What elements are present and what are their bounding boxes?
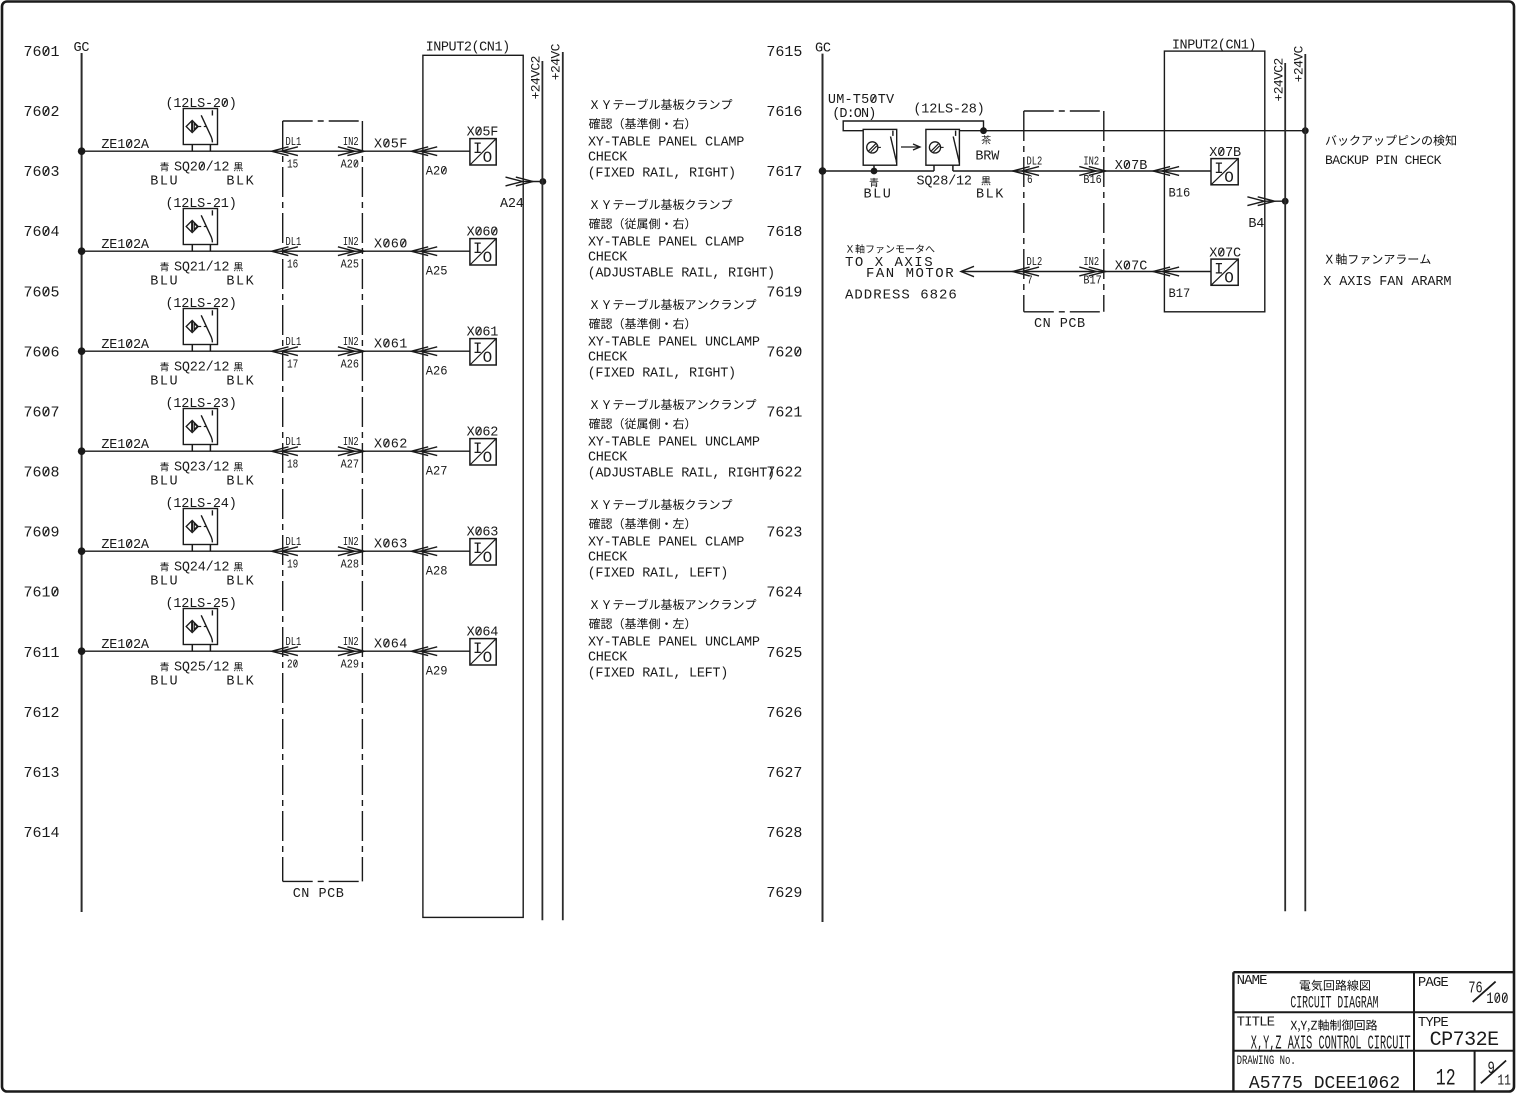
svg-text:(12LS-24): (12LS-24) bbox=[166, 497, 237, 512]
connector CN PCB pin DL1 16 / IN2 A25 bbox=[272, 236, 365, 272]
signal X060 wire to INPUT2 pin A25 bbox=[362, 238, 470, 279]
+24VC2 bus (right) bbox=[1271, 58, 1286, 911]
svg-text:X07C: X07C bbox=[1115, 260, 1148, 275]
description label row 6 bbox=[588, 599, 760, 682]
svg-text:A29: A29 bbox=[341, 659, 359, 672]
svg-text:I: I bbox=[473, 440, 482, 458]
signal X064 wire to INPUT2 pin A29 bbox=[362, 638, 470, 679]
svg-text:BLK: BLK bbox=[226, 675, 255, 690]
svg-text:XY-TABLE PANEL CLAMP: XY-TABLE PANEL CLAMP bbox=[588, 136, 744, 151]
svg-text:7609: 7609 bbox=[24, 525, 60, 542]
svg-text:CHECK: CHECK bbox=[588, 550, 628, 565]
svg-text:DL1: DL1 bbox=[286, 436, 302, 450]
signal X061 wire to INPUT2 pin A26 bbox=[362, 338, 470, 379]
svg-text:DL2: DL2 bbox=[1027, 256, 1043, 270]
svg-text:CHECK: CHECK bbox=[588, 650, 628, 665]
title block: TITLE X,Y,Z axis control circuit bbox=[1237, 1014, 1411, 1054]
svg-text:O: O bbox=[483, 249, 493, 267]
wire SQ24 to CN PCB pin DL1-19 bbox=[78, 547, 283, 555]
connector CN PCB pin DL2 6 / IN2 B16 bbox=[1013, 155, 1106, 187]
wire SQ23 to CN PCB pin DL1-18 bbox=[78, 447, 283, 455]
svg-text:(D:ON): (D:ON) bbox=[832, 107, 875, 122]
limit switch SQ22 (12LS-22) bbox=[101, 297, 255, 390]
svg-text:O: O bbox=[483, 349, 493, 367]
svg-text:INPUT2(CN1): INPUT2(CN1) bbox=[426, 40, 510, 55]
svg-text:BLU: BLU bbox=[150, 475, 179, 490]
svg-text:DL1: DL1 bbox=[286, 636, 302, 650]
svg-text:X063: X063 bbox=[374, 538, 408, 553]
wire SQ25 to CN PCB pin DL1-20 bbox=[78, 647, 283, 655]
wire SQ21 to CN PCB pin DL1-16 bbox=[78, 247, 283, 255]
connector CN PCB pin DL1 15 / IN2 A20 bbox=[272, 136, 365, 172]
svg-text:7617: 7617 bbox=[766, 164, 802, 181]
svg-text:18: 18 bbox=[287, 459, 298, 472]
svg-text:A29: A29 bbox=[426, 664, 448, 678]
svg-text:UM-T50TV: UM-T50TV bbox=[828, 93, 895, 108]
svg-text:O: O bbox=[483, 449, 493, 467]
svg-text:7607: 7607 bbox=[24, 404, 60, 421]
wire to X axis fan motor (ADDRESS 6826) bbox=[845, 244, 1024, 303]
svg-text:A24: A24 bbox=[500, 197, 524, 212]
title block: 9/11 bbox=[1481, 1058, 1511, 1089]
svg-text:CHECK: CHECK bbox=[588, 150, 628, 165]
title block: PAGE 76/100 bbox=[1418, 975, 1509, 1009]
svg-text:B17: B17 bbox=[1169, 286, 1191, 300]
svg-text:A28: A28 bbox=[341, 559, 359, 572]
GC bus (left) bbox=[74, 41, 90, 912]
svg-text:X062: X062 bbox=[374, 438, 408, 453]
svg-text:CHECK: CHECK bbox=[588, 350, 628, 365]
I/O point X061 bbox=[467, 326, 499, 367]
svg-text:SQ24/12: SQ24/12 bbox=[174, 561, 229, 576]
svg-text:A27: A27 bbox=[341, 459, 359, 472]
svg-text:CHECK: CHECK bbox=[588, 450, 628, 465]
svg-text:BRW: BRW bbox=[975, 150, 1000, 165]
svg-text:O: O bbox=[1224, 269, 1234, 287]
svg-text:7602: 7602 bbox=[24, 104, 60, 121]
svg-text:7627: 7627 bbox=[766, 765, 802, 782]
limit switch SQ23 (12LS-23) bbox=[101, 397, 255, 490]
svg-text:I: I bbox=[473, 540, 482, 558]
svg-text:7628: 7628 bbox=[766, 825, 802, 842]
svg-text:A26: A26 bbox=[341, 359, 359, 372]
proximity switch SQ28/12 UM-T50TV (12LS-28) bbox=[828, 93, 1005, 203]
svg-text:(12LS-21): (12LS-21) bbox=[166, 197, 237, 212]
svg-text:7625: 7625 bbox=[766, 645, 802, 662]
svg-text:(12LS-28): (12LS-28) bbox=[913, 103, 984, 118]
svg-text:BLK: BLK bbox=[226, 475, 255, 490]
+24VC2 bus (left) bbox=[529, 56, 544, 920]
svg-text:+24VC2: +24VC2 bbox=[529, 56, 544, 99]
svg-text:A20: A20 bbox=[341, 159, 359, 172]
svg-text:15: 15 bbox=[287, 159, 298, 172]
+24VC bus (left) bbox=[549, 43, 564, 920]
caption: X axis fan alarm bbox=[1323, 254, 1451, 290]
svg-text:7624: 7624 bbox=[766, 585, 802, 602]
svg-text:7618: 7618 bbox=[766, 224, 802, 241]
svg-text:7613: 7613 bbox=[24, 765, 60, 782]
svg-text:B16: B16 bbox=[1083, 174, 1101, 187]
title block: TYPE CP732E bbox=[1418, 1015, 1499, 1052]
svg-text:I: I bbox=[1214, 260, 1223, 278]
svg-text:XY-TABLE PANEL CLAMP: XY-TABLE PANEL CLAMP bbox=[588, 536, 744, 551]
svg-text:I: I bbox=[473, 340, 482, 358]
I/O point X05F bbox=[467, 126, 499, 167]
svg-text:7623: 7623 bbox=[766, 525, 802, 542]
input module INPUT2(CN1) (left) bbox=[423, 40, 523, 917]
wire SQ28 (BLK) to CN PCB pin DL2-6 bbox=[953, 170, 1024, 172]
svg-text:CHECK: CHECK bbox=[588, 250, 628, 265]
wire SQ22 to CN PCB pin DL1-17 bbox=[78, 347, 283, 355]
svg-text:7608: 7608 bbox=[24, 465, 60, 482]
svg-text:BLK: BLK bbox=[976, 188, 1005, 203]
connector CN PCB pin DL2 7 / IN2 B17 bbox=[1013, 256, 1106, 288]
svg-text:DL1: DL1 bbox=[286, 536, 302, 550]
svg-text:I: I bbox=[473, 240, 482, 258]
title block: NAME circuit diagram bbox=[1237, 973, 1379, 1013]
svg-text:A26: A26 bbox=[426, 364, 448, 378]
svg-text:7: 7 bbox=[1027, 275, 1033, 288]
description label row 2 bbox=[588, 199, 775, 282]
svg-text:A20: A20 bbox=[426, 164, 448, 178]
svg-text:DL2: DL2 bbox=[1027, 155, 1043, 169]
connector CN PCB pin DL1 20 / IN2 A29 bbox=[272, 636, 365, 672]
svg-text:BLK: BLK bbox=[226, 575, 255, 590]
svg-text:A28: A28 bbox=[426, 564, 448, 578]
svg-text:(ADJUSTABLE RAIL, RIGHT): (ADJUSTABLE RAIL, RIGHT) bbox=[588, 466, 775, 481]
svg-text:A25: A25 bbox=[426, 264, 448, 278]
svg-text:(12LS-23): (12LS-23) bbox=[166, 397, 237, 412]
svg-text:(FIXED RAIL, RIGHT): (FIXED RAIL, RIGHT) bbox=[588, 166, 736, 181]
svg-text:BLU: BLU bbox=[150, 375, 179, 390]
I/O point X060 bbox=[467, 226, 499, 267]
svg-text:12: 12 bbox=[1436, 1066, 1456, 1092]
svg-text:(FIXED RAIL, LEFT): (FIXED RAIL, LEFT) bbox=[588, 566, 728, 581]
svg-text:+24VC: +24VC bbox=[549, 43, 564, 80]
svg-text:SQ23/12: SQ23/12 bbox=[174, 461, 229, 476]
svg-text:TITLE: TITLE bbox=[1237, 1014, 1275, 1030]
wire SQ20 to CN PCB pin DL1-15 bbox=[78, 147, 283, 155]
svg-text:7601: 7601 bbox=[24, 44, 60, 61]
svg-text:BLU: BLU bbox=[864, 188, 893, 203]
svg-text:O: O bbox=[483, 149, 493, 167]
description label row 4 bbox=[588, 399, 775, 482]
svg-text:7612: 7612 bbox=[24, 705, 60, 722]
svg-text:PAGE: PAGE bbox=[1418, 975, 1449, 991]
wire GC to SQ28 (BLU) bbox=[819, 167, 934, 175]
svg-text:7619: 7619 bbox=[766, 284, 802, 301]
svg-text:7626: 7626 bbox=[766, 705, 802, 722]
svg-text:CP732E: CP732E bbox=[1430, 1029, 1499, 1052]
svg-text:7604: 7604 bbox=[24, 224, 60, 241]
I/O point X07B bbox=[1209, 146, 1241, 187]
svg-text:BLU: BLU bbox=[150, 175, 179, 190]
input module INPUT2(CN1) (right) bbox=[1164, 39, 1264, 312]
svg-text:+24VC: +24VC bbox=[1292, 45, 1307, 82]
svg-text:(ADJUSTABLE RAIL, RIGHT): (ADJUSTABLE RAIL, RIGHT) bbox=[588, 266, 775, 281]
svg-text:O: O bbox=[1224, 169, 1234, 187]
svg-text:7615: 7615 bbox=[766, 44, 802, 61]
signal X05F wire to INPUT2 pin A20 bbox=[362, 138, 470, 179]
signal X07B wire to INPUT2 pin B16 bbox=[1104, 159, 1211, 200]
svg-text:CN PCB: CN PCB bbox=[1034, 317, 1086, 332]
connector CN PCB pin DL1 17 / IN2 A26 bbox=[272, 336, 365, 372]
svg-text:17: 17 bbox=[287, 359, 298, 372]
connector CN PCB (right, dashed outline) bbox=[1024, 111, 1104, 332]
svg-text:X07B: X07B bbox=[1115, 159, 1148, 174]
svg-text:A25: A25 bbox=[341, 259, 359, 272]
I/O point X064 bbox=[467, 626, 499, 667]
svg-text:+24VC2: +24VC2 bbox=[1271, 58, 1286, 101]
svg-text:BLU: BLU bbox=[150, 675, 179, 690]
node A24 tap to +24VC2 bbox=[500, 177, 546, 212]
svg-text:DL1: DL1 bbox=[286, 336, 302, 350]
svg-text:DRAWING No.: DRAWING No. bbox=[1237, 1055, 1296, 1069]
title block: DRAWING No. A5775DCEE1062 bbox=[1237, 1055, 1401, 1094]
svg-text:SQ25/12: SQ25/12 bbox=[174, 661, 229, 676]
svg-text:B4: B4 bbox=[1248, 217, 1264, 232]
line numbers 7601-7614 bbox=[24, 44, 60, 842]
I/O point X062 bbox=[467, 426, 499, 467]
svg-text:I: I bbox=[473, 140, 482, 158]
I/O point X063 bbox=[467, 526, 499, 567]
svg-text:NAME: NAME bbox=[1237, 973, 1268, 989]
svg-text:O: O bbox=[483, 649, 493, 667]
svg-text:I: I bbox=[1214, 160, 1223, 178]
svg-text:7616: 7616 bbox=[766, 104, 802, 121]
limit switch SQ21 (12LS-21) bbox=[101, 197, 255, 290]
svg-text:XY-TABLE PANEL UNCLAMP: XY-TABLE PANEL UNCLAMP bbox=[588, 336, 760, 351]
svg-text:BLU: BLU bbox=[150, 275, 179, 290]
svg-text:DL1: DL1 bbox=[286, 136, 302, 150]
svg-text:(FIXED RAIL, LEFT): (FIXED RAIL, LEFT) bbox=[588, 666, 728, 681]
GC bus (right) bbox=[815, 42, 831, 922]
svg-text:BACKUP PIN CHECK: BACKUP PIN CHECK bbox=[1325, 153, 1442, 168]
svg-text:O: O bbox=[483, 549, 493, 567]
svg-text:7603: 7603 bbox=[24, 164, 60, 181]
svg-text:X061: X061 bbox=[374, 338, 408, 353]
svg-text:ADDRESS 6826: ADDRESS 6826 bbox=[845, 288, 958, 304]
limit switch SQ24 (12LS-24) bbox=[101, 497, 255, 590]
node B4 tap to +24VC2 bbox=[1247, 197, 1288, 232]
svg-text:B17: B17 bbox=[1083, 275, 1101, 288]
svg-text:DL1: DL1 bbox=[286, 236, 302, 250]
svg-text:B16: B16 bbox=[1169, 186, 1191, 200]
svg-text:100: 100 bbox=[1486, 991, 1508, 1009]
svg-text:BLK: BLK bbox=[226, 375, 255, 390]
svg-text:BLK: BLK bbox=[226, 175, 255, 190]
svg-text:XY-TABLE PANEL UNCLAMP: XY-TABLE PANEL UNCLAMP bbox=[588, 636, 760, 651]
node BRW junction to +24VC bbox=[959, 127, 1308, 134]
svg-text:11: 11 bbox=[1497, 1072, 1511, 1089]
svg-text:6: 6 bbox=[1027, 174, 1033, 187]
svg-text:7605: 7605 bbox=[24, 284, 60, 301]
svg-text:7621: 7621 bbox=[766, 404, 802, 421]
svg-text:X05F: X05F bbox=[374, 138, 408, 153]
svg-text:X,Y,Z AXIS CONTROL CIRCUIT: X,Y,Z AXIS CONTROL CIRCUIT bbox=[1251, 1032, 1411, 1054]
signal X062 wire to INPUT2 pin A27 bbox=[362, 438, 470, 479]
limit switch SQ25 (12LS-25) bbox=[101, 597, 255, 690]
connector CN PCB (left, dashed outline) bbox=[283, 121, 363, 902]
title block: sheet 12 bbox=[1436, 1066, 1456, 1092]
svg-text:XY-TABLE PANEL CLAMP: XY-TABLE PANEL CLAMP bbox=[588, 236, 744, 251]
svg-text:19: 19 bbox=[287, 559, 298, 572]
svg-text:I: I bbox=[473, 640, 482, 658]
svg-text:SQ20/12: SQ20/12 bbox=[174, 161, 229, 176]
svg-text:SQ28/12: SQ28/12 bbox=[917, 175, 972, 190]
svg-text:BLK: BLK bbox=[226, 275, 255, 290]
caption: backup pin check bbox=[1325, 135, 1456, 168]
svg-text:FAN MOTOR: FAN MOTOR bbox=[866, 266, 955, 282]
description label row 5 bbox=[588, 499, 745, 582]
svg-text:(12LS-25): (12LS-25) bbox=[166, 597, 237, 612]
svg-text:BLU: BLU bbox=[150, 575, 179, 590]
limit switch SQ20 (12LS-20) bbox=[101, 97, 255, 190]
svg-text:SQ21/12: SQ21/12 bbox=[174, 261, 229, 276]
svg-text:SQ22/12: SQ22/12 bbox=[174, 361, 229, 376]
svg-text:7611: 7611 bbox=[24, 645, 60, 662]
svg-text:(FIXED RAIL, RIGHT): (FIXED RAIL, RIGHT) bbox=[588, 366, 736, 381]
svg-text:CN PCB: CN PCB bbox=[293, 887, 345, 902]
svg-text:A27: A27 bbox=[426, 464, 448, 478]
signal X07C wire to INPUT2 pin B17 bbox=[1104, 260, 1211, 301]
line numbers 7615-7629 bbox=[766, 44, 802, 902]
svg-text:7606: 7606 bbox=[24, 344, 60, 361]
svg-text:16: 16 bbox=[287, 259, 298, 272]
svg-text:7629: 7629 bbox=[766, 885, 802, 902]
svg-text:CIRCUIT DIAGRAM: CIRCUIT DIAGRAM bbox=[1290, 994, 1378, 1014]
svg-text:7614: 7614 bbox=[24, 825, 60, 842]
description label row 1 bbox=[588, 99, 745, 182]
signal X063 wire to INPUT2 pin A28 bbox=[362, 538, 470, 579]
svg-text:(12LS-22): (12LS-22) bbox=[166, 297, 237, 312]
svg-text:A5775 DCEE1062: A5775 DCEE1062 bbox=[1249, 1074, 1400, 1094]
svg-text:X AXIS FAN ARARM: X AXIS FAN ARARM bbox=[1323, 275, 1451, 290]
connector CN PCB pin DL1 18 / IN2 A27 bbox=[272, 436, 365, 472]
I/O point X07C bbox=[1209, 246, 1241, 287]
+24VC bus (right) bbox=[1292, 45, 1307, 911]
svg-text:X064: X064 bbox=[374, 638, 408, 653]
title block frame bbox=[1233, 972, 1514, 1092]
svg-text:(12LS-20): (12LS-20) bbox=[166, 97, 237, 112]
svg-text:XY-TABLE PANEL UNCLAMP: XY-TABLE PANEL UNCLAMP bbox=[588, 436, 760, 451]
connector CN PCB pin DL1 19 / IN2 A28 bbox=[272, 536, 365, 572]
description label row 3 bbox=[588, 299, 760, 382]
